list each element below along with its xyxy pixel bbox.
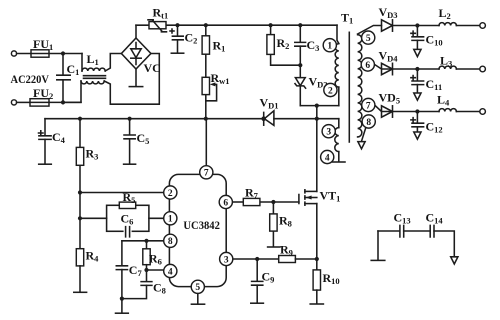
node FU2/C1 xyxy=(61,100,65,104)
capacitor C2 xyxy=(170,25,197,52)
wire drain xyxy=(316,106,318,192)
wire R1/Rw1 column xyxy=(205,25,207,119)
svg-text:UC3842: UC3842 xyxy=(183,218,220,232)
terminal out3 xyxy=(480,109,486,115)
resistor R7 xyxy=(243,186,299,206)
capacitor C12 xyxy=(411,112,443,135)
ground (R10) xyxy=(310,303,323,305)
svg-text:VC: VC xyxy=(144,61,161,75)
resistor R10 xyxy=(313,259,340,303)
svg-text:8: 8 xyxy=(168,237,173,247)
diode VD4 xyxy=(379,49,399,75)
svg-text:2: 2 xyxy=(168,189,173,199)
node C7/C8 xyxy=(120,297,124,301)
pin 3 xyxy=(220,252,233,265)
fuse FU1 xyxy=(31,37,53,57)
wire pin5 ground stem xyxy=(197,293,199,303)
wire VCC bus xyxy=(45,118,339,120)
fuse FU2 xyxy=(30,86,53,106)
svg-text:AC220V: AC220V xyxy=(11,72,50,86)
pin 5 xyxy=(191,280,204,293)
node C2 xyxy=(175,23,179,27)
svg-text:8: 8 xyxy=(366,118,371,128)
svg-text:7: 7 xyxy=(366,101,371,111)
resistor R8 xyxy=(270,202,292,246)
wire pin4 xyxy=(147,269,164,271)
svg-text:4: 4 xyxy=(168,267,173,277)
resistor R5 xyxy=(119,190,135,209)
capacitor C11 xyxy=(411,69,442,93)
capacitor C6 xyxy=(121,212,134,237)
R5 C6 network xyxy=(80,205,164,231)
pin 1 T1 xyxy=(323,39,336,52)
terminal out1 xyxy=(480,23,486,29)
pin 2 xyxy=(164,186,177,199)
node R6/C8/pin4 xyxy=(144,268,148,272)
pin 5 T1 xyxy=(362,31,375,44)
node Rw1/pin7 bus xyxy=(204,117,208,121)
inductor L4 xyxy=(437,93,480,112)
diode VD5 xyxy=(379,91,401,118)
ground (R4) xyxy=(74,291,87,293)
pin 1 xyxy=(164,212,177,225)
svg-text:6: 6 xyxy=(223,198,228,208)
inductor L3 xyxy=(439,54,480,70)
ground (C7/C8) xyxy=(116,312,129,314)
ground (C13) xyxy=(371,259,385,261)
node R2 top xyxy=(269,23,273,27)
ground (aux winding) xyxy=(333,161,345,163)
choke L1 xyxy=(63,52,159,104)
pin 6 T1 xyxy=(361,58,374,71)
terminal out2 xyxy=(480,66,486,72)
node R2/C3/VD2 xyxy=(298,63,302,67)
node drain/VD2 xyxy=(315,104,319,108)
wire VD2 rail xyxy=(300,105,339,107)
svg-text:5: 5 xyxy=(195,283,200,293)
ground arrow (C10) xyxy=(414,49,421,56)
wire secondary pin5 tap xyxy=(358,26,382,35)
svg-text:3: 3 xyxy=(326,128,331,138)
resistor R3 xyxy=(76,147,98,166)
wire secondary pin8 lead xyxy=(362,127,367,141)
ground (R8) xyxy=(268,246,280,248)
wire source xyxy=(316,204,318,259)
node C11 xyxy=(415,67,419,71)
wire pin7 xyxy=(205,119,207,166)
pin 7 xyxy=(200,166,213,179)
svg-text:1: 1 xyxy=(327,42,332,52)
terminal input N xyxy=(11,100,30,105)
node C5 bus xyxy=(128,117,132,121)
pin 8 xyxy=(164,234,177,247)
wire pin8 xyxy=(122,240,164,242)
bridge rectifier VC xyxy=(121,25,160,86)
ground arrow (C11) xyxy=(414,93,421,100)
ground (C5) xyxy=(124,163,136,165)
capacitor C8 xyxy=(122,270,166,299)
wire aux winding xyxy=(335,119,339,162)
wire left column xyxy=(79,119,81,249)
resistor R4 xyxy=(76,249,99,292)
svg-text:5: 5 xyxy=(366,34,371,44)
ground (C4) xyxy=(39,163,52,165)
transformer T1 xyxy=(335,11,362,143)
node gate xyxy=(271,200,275,204)
potentiometer Rw1 xyxy=(202,71,229,101)
pin 7 T1 xyxy=(362,98,375,111)
svg-text:1: 1 xyxy=(168,215,173,225)
wire secondary pin7 tap xyxy=(362,105,439,112)
ground arrow (C14) xyxy=(451,257,458,264)
wire pin3 stub xyxy=(233,258,279,260)
capacitor C1 xyxy=(57,54,80,103)
wire top rail xyxy=(136,24,337,26)
resistor R2 xyxy=(267,25,300,65)
resistor R1 xyxy=(202,36,225,54)
node pin2 wire xyxy=(78,190,82,194)
op-amp U1 UC3842 outline xyxy=(169,174,226,286)
diode VD3 xyxy=(379,5,440,31)
ground (pin5) xyxy=(191,303,204,305)
node C12 xyxy=(415,109,419,113)
ground arrow (C12) xyxy=(414,132,421,139)
ground (C2) xyxy=(171,52,183,54)
capacitor C9 xyxy=(252,259,275,302)
node C10 xyxy=(415,23,419,27)
capacitor C4 xyxy=(39,119,66,164)
node drain bus xyxy=(315,117,319,121)
thermistor Rt1 xyxy=(148,6,168,32)
wire pin2 xyxy=(80,192,164,194)
ground (bridge) xyxy=(129,86,142,88)
wire pin6 stub xyxy=(232,201,243,203)
pin 4 xyxy=(164,264,177,277)
node R1 top xyxy=(204,23,208,27)
node source/R10 xyxy=(315,257,319,261)
resistor R6 xyxy=(143,241,162,270)
zener VD2 xyxy=(295,65,328,105)
pin 3 T1 xyxy=(322,125,335,138)
wire xyxy=(49,53,82,55)
wire xyxy=(49,101,81,103)
diode VD1 xyxy=(260,96,279,126)
capacitor C14 xyxy=(404,211,455,257)
resistor R9 xyxy=(279,243,317,263)
capacitor C10 xyxy=(411,26,443,50)
svg-text:4: 4 xyxy=(325,153,330,163)
capacitor C13 xyxy=(378,211,411,260)
wire secondary pin6 tap xyxy=(362,65,439,70)
node R3 bus xyxy=(78,117,82,121)
pin 4 T1 xyxy=(321,150,334,163)
transistor Q1 VT1 mosfet xyxy=(299,189,341,206)
svg-text:2: 2 xyxy=(328,86,333,96)
capacitor C7 xyxy=(116,241,142,313)
ground arrow (pin8) xyxy=(358,142,365,149)
capacitor C5 xyxy=(124,119,149,164)
capacitor C3 xyxy=(295,25,320,65)
node C9 xyxy=(255,257,259,261)
svg-text:7: 7 xyxy=(204,169,209,179)
svg-text:3: 3 xyxy=(224,255,229,265)
node C3 top xyxy=(298,23,302,27)
node FU1/C1 xyxy=(61,51,65,55)
pin 6 xyxy=(219,195,232,208)
pin 2 T1 xyxy=(324,83,337,96)
node R6 top xyxy=(144,239,148,243)
ground (C9) xyxy=(251,302,264,304)
inductor L2 xyxy=(439,6,480,26)
terminal input L xyxy=(11,51,31,56)
svg-text:6: 6 xyxy=(365,61,370,71)
node C6 wire xyxy=(78,216,82,220)
pin 8 T1 xyxy=(362,115,375,128)
